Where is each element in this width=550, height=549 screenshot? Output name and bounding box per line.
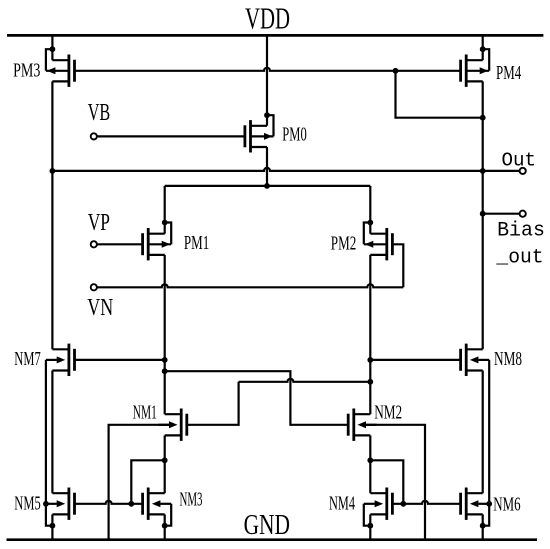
wire PM2 gate riser [392,244,403,287]
svg-text:PM0: PM0 [282,124,307,146]
terminal Out [520,168,526,174]
transistor PM3 [68,55,71,87]
svg-text:NM5: NM5 [14,492,40,514]
transistor NM7 [68,344,71,376]
wire NM2 source down [369,435,371,493]
wire PM4 source to VDD [482,35,484,60]
junction NM3 bulk-source [162,523,168,529]
junction PM1 bulk-source [162,220,168,226]
transistor PM0 [249,120,252,152]
svg-text:NM2: NM2 [374,401,402,423]
wire NM5 source to GND [51,514,53,539]
transistor NM1 [180,409,183,441]
wire NM3 source to GND [164,514,166,539]
terminal VP [91,241,97,247]
junction left bulk-source [50,523,56,529]
terminal VN [91,284,97,290]
wire output node [52,168,519,171]
svg-text:NM8: NM8 [494,348,522,370]
ground rail GND [7,538,538,541]
wire NM4 gate-drain tie [370,460,403,504]
wire NM8 source down [482,371,484,494]
junction right bulk-source [480,523,486,529]
wire B riser to NM1 gate [187,382,239,425]
svg-text:NM3: NM3 [180,489,203,511]
transistor NM5 [68,488,71,520]
wire NM3 gate-drain tie [131,460,164,504]
transistor PM2 [385,228,388,260]
svg-text:GND: GND [244,509,290,541]
wire PM2 bulk tie [364,223,371,245]
transistor PM4 [465,55,468,87]
wire B NM1 gate to right node [239,379,371,382]
wire PM0 bulk tie [267,115,274,136]
junction PM0 drain / tail rail [264,183,270,189]
junction right node [367,357,373,363]
junction wire A / left column [162,368,168,374]
wire NM3 bulk join [165,504,172,526]
wire NM4-NM6 gate wire [392,501,460,504]
wire PM4 bulk tie [483,49,490,71]
transistor NM6 [465,488,468,520]
wire NM8 gate wire [370,359,460,361]
wire NM4 bulk join [364,504,371,526]
svg-text:VDD: VDD [245,1,290,36]
junction PM2 bulk-source [367,220,373,226]
junction NM4 tie / gate wire [400,501,406,507]
svg-text:VB: VB [88,99,111,126]
wire bias tap [483,213,520,215]
wire PM1 drain column [164,255,166,414]
wire right bulk join [483,504,490,526]
junction PM0 bulk-source [264,112,270,118]
wire PM3 source to VDD [51,35,53,60]
svg-text:PM1: PM1 [184,232,209,254]
terminal Bias_out [520,211,526,217]
transistor NM8 [465,344,468,376]
svg-text:PM4: PM4 [496,62,521,84]
wire NM7 gate wire [75,359,165,361]
junction NM3 tie / column [162,457,168,463]
junction NM8 bulk / NM6 bulk [486,501,492,507]
wire PM0 drain to tail rail [266,147,268,186]
wire PM0 source to VDD [266,35,268,125]
wire PM3 drain to NM7 drain [51,81,53,349]
svg-text:VN: VN [87,294,113,321]
junction PM4 drain / tie [480,115,486,121]
svg-text:NM7: NM7 [14,348,40,370]
wire PM2 source to tail rail [369,186,371,234]
wire NM5-NM3 gate wire [75,501,143,504]
wire PM4 gate-drain tie [396,71,483,118]
wire PM4 drain column [482,81,484,349]
svg-text:NM6: NM6 [493,494,520,516]
svg-text:PM2: PM2 [331,233,357,255]
junction NM4 tie / column [367,457,373,463]
terminal VB [91,133,97,139]
wire VB to PM0 gate [97,135,245,137]
junction left node [162,357,168,363]
wire PM3 bulk tie [46,49,53,71]
wire NM7 source down [51,371,53,494]
wire NM2 bulk to ground [366,425,425,540]
junction gate bus / tie [393,68,399,74]
junction NM4 bulk-source [367,523,373,529]
junction PM4 bulk-source [480,46,486,52]
junction NM3 tie / gate wire [128,501,134,507]
svg-text:Bias: Bias [497,220,545,243]
junction bias / right column [480,211,486,217]
wire VN to PM2 gate [97,284,403,287]
junction out / left column [50,168,56,174]
wire NM1 source down [164,435,166,493]
wire PM1 source to tail rail [164,186,166,234]
svg-text:Out: Out [502,150,537,172]
transistor NM2 [352,409,355,441]
wire NM6 source to GND [482,514,484,539]
wire NM1 bulk to ground [109,425,170,540]
svg-text:PM3: PM3 [13,59,40,81]
junction NM7 bulk / NM5 bulk [43,501,49,507]
transistor NM3 [147,488,150,520]
junction PM3 bulk-source [50,46,56,52]
svg-text:NM1: NM1 [133,402,157,424]
transistor PM1 [147,228,150,260]
transistor NM4 [385,488,388,520]
svg-text:VP: VP [88,209,110,236]
junction wire B / right column [367,379,373,385]
power rail VDD [7,34,543,37]
wire NM4 source to GND [369,514,371,539]
wire A left node to NM2 gate [165,371,349,425]
wire NM7 bulk down [45,360,47,504]
wire PM3-PM4 gate bus [75,68,461,71]
svg-text:NM4: NM4 [329,493,355,515]
wire tail rail [165,185,371,187]
wire VP to PM1 gate [97,243,143,245]
wire PM2 drain column [369,255,371,414]
wire PM1 bulk tie [165,223,172,245]
wire left bulk join [46,504,53,526]
wire NM8 bulk down [488,360,490,504]
junction out / right column [480,168,486,174]
svg-text:_out: _out [495,246,543,269]
